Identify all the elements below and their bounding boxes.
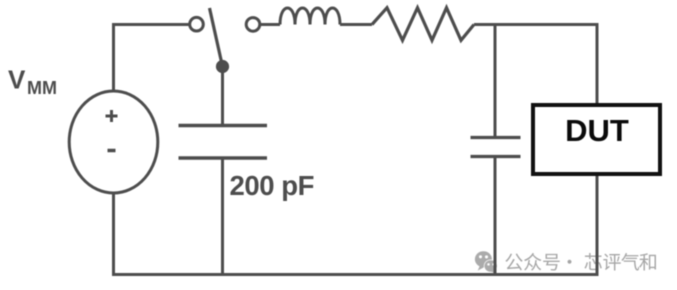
inductor L1 [280,8,340,25]
wire resistor to DUT top [474,25,597,104]
svg-text:200 pF: 200 pF [230,170,314,201]
wire capacitor C1 to rail [221,158,224,275]
capacitor C1 plates [179,126,268,159]
wire source bottom to rail [112,192,115,275]
minus sign [108,149,116,153]
wire capacitor C2 to rail [494,157,497,275]
plus sign [106,110,118,122]
switch S1 left terminal [190,17,204,31]
svg-text:V: V [8,65,26,95]
wire junction down to capacitor C2 [494,25,497,138]
wire switch to inductor [261,23,281,26]
wire DUT bottom to rail [596,176,599,275]
switch S1 right terminal [246,18,260,32]
watermark wechat icon [475,251,498,274]
DUT box U1 [533,105,660,174]
capacitor C2 plates [471,138,521,157]
wire inductor to resistor [340,23,372,26]
svg-text:DUT: DUT [565,113,629,148]
switch S1 lever [210,8,222,62]
voltage source V_MM [69,91,158,193]
wire pivot dot to capacitor C1 [221,70,224,126]
resistor R1 [372,8,474,41]
bottom rail wire [112,273,599,276]
svg-text:MM: MM [27,78,57,98]
watermark text 公众号·芯评气和 [505,253,656,271]
wire source top to switch [114,25,191,93]
switch S1 pivot dot [216,60,229,73]
